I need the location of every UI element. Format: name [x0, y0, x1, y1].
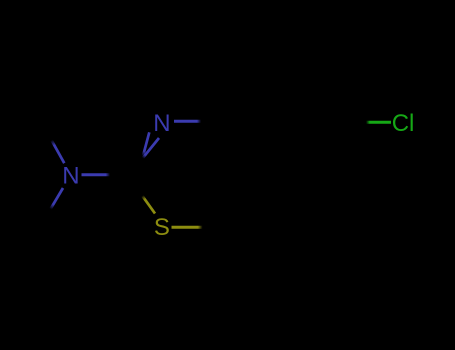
svg-text:N: N [153, 110, 170, 137]
C=N2 double bond inner line (N half) [143, 132, 149, 156]
svg-text:S: S [154, 214, 170, 241]
bond N2-phenyl (N half) [174, 120, 201, 123]
svg-text:Cl: Cl [392, 110, 415, 137]
bond C-S (S half) [142, 196, 155, 214]
svg-text:N: N [62, 163, 79, 190]
bond N1-CH3 upper methyl (N half) [52, 140, 65, 163]
bond N1-CH3 lower methyl (N half) [51, 188, 64, 209]
bond S-CH3 (S half) [172, 226, 203, 229]
bond N1-C central (N half) [82, 173, 111, 176]
C=N2 double bond outer line (N half) [143, 138, 159, 158]
bond phenyl-Cl (Cl half) [366, 121, 391, 124]
